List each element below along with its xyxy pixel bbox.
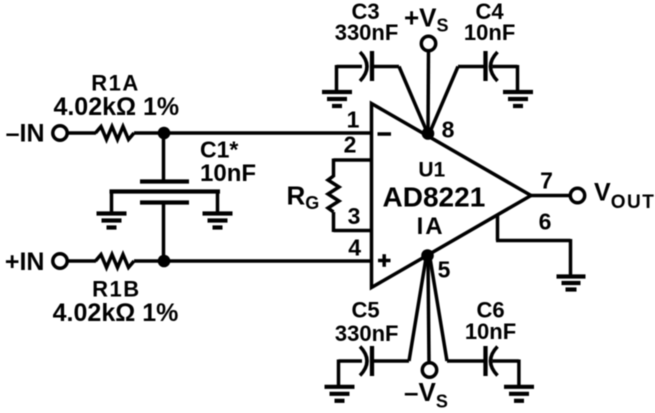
svg-text:3: 3: [348, 203, 361, 229]
plus sign at pin 4 input: [378, 254, 391, 267]
wire U1 pin 6 from triangle edge down: [496, 214, 500, 241]
capacitor C3: [337, 51, 400, 81]
svg-text:C5: C5: [351, 298, 379, 323]
C1 middle grounded plate: [110, 189, 221, 193]
wire C4 to U1 pin 8: [430, 67, 458, 133]
svg-text:+IN: +IN: [5, 248, 45, 276]
wire U1 pin 3 stub: [334, 229, 372, 233]
svg-text:4: 4: [348, 235, 361, 261]
wire C1 middle plate right to ground: [216, 192, 220, 213]
wire -VS to U1 pin 5: [428, 257, 429, 363]
wire C1 bottom plate down to node B: [162, 204, 166, 261]
wire pin 2 stub down to RG: [332, 159, 336, 178]
capacitor C6: [447, 346, 519, 376]
svg-text:–IN: –IN: [6, 120, 45, 148]
junction dot node A: [158, 127, 171, 140]
svg-text:U1: U1: [418, 159, 445, 182]
wire C3 to U1 pin 8: [399, 67, 427, 133]
svg-text:1: 1: [347, 107, 360, 133]
svg-text:2: 2: [344, 132, 357, 158]
wire node A to U1 pin 1: [164, 131, 372, 135]
wire pin 6 down to ground: [569, 239, 573, 275]
resistor R1B: [96, 255, 135, 268]
junction dot U1 pin 5: [421, 249, 434, 262]
wire node B to U1 pin 4: [164, 259, 372, 263]
terminal circle +IN: [53, 254, 67, 268]
ground (C5): [325, 387, 355, 401]
ground (pin 6 REF): [557, 277, 586, 290]
svg-text:10nF: 10nF: [465, 319, 516, 344]
ground (C4): [503, 92, 533, 106]
wire R1B to node B: [134, 259, 164, 263]
wire pin 6 horizontal: [496, 239, 571, 243]
wire C5 left leg down to ground: [337, 360, 341, 386]
capacitor C4: [458, 51, 518, 81]
svg-text:R1B: R1B: [92, 277, 141, 302]
terminal circle VOUT: [570, 188, 584, 202]
svg-text:4.02kΩ 1%: 4.02kΩ 1%: [53, 299, 179, 327]
wire +VS to U1 pin 8: [426, 51, 430, 134]
svg-text:330nF: 330nF: [335, 20, 399, 45]
terminal circle +VS: [421, 36, 435, 50]
wire R1A to node A: [134, 131, 164, 135]
wire +IN terminal to R1B: [67, 259, 96, 263]
wire C6 right leg down to ground: [517, 360, 521, 386]
terminal circle -IN: [53, 126, 67, 140]
resistor R1A: [96, 127, 135, 140]
wire C3 left leg down to ground: [335, 65, 339, 90]
capacitor C5: [339, 346, 410, 376]
ground (C3): [322, 92, 352, 106]
svg-text:4.02kΩ 1%: 4.02kΩ 1%: [53, 93, 179, 121]
svg-text:10nF: 10nF: [464, 20, 515, 45]
svg-text:8: 8: [442, 117, 455, 143]
C1 bottom plate: [140, 200, 189, 204]
wire C6 to U1 pin 5: [430, 258, 447, 361]
wire C1 middle plate left to ground: [110, 192, 114, 213]
wire node A down to C1 top plate: [162, 133, 166, 180]
junction dot node B: [158, 255, 171, 268]
wire U1 pin 2 stub: [334, 158, 372, 162]
capacitor C1 (dual differential/common-mode): [110, 133, 221, 261]
wire C5 to U1 pin 5: [409, 258, 426, 361]
svg-text:330nF: 330nF: [335, 321, 399, 346]
svg-text:6: 6: [539, 209, 552, 235]
ground (C1 left): [97, 214, 127, 228]
terminal circle -VS: [422, 363, 436, 377]
op-amp U1 triangle: [372, 104, 532, 288]
wire C4 right leg down to ground: [516, 65, 520, 90]
resistor RG: [328, 176, 339, 212]
wire RG down to pin 3 stub: [332, 212, 336, 232]
C1 top plate: [140, 179, 189, 183]
svg-text:AD8221: AD8221: [383, 182, 486, 213]
wire -IN terminal to R1A: [67, 131, 96, 135]
svg-text:R1A: R1A: [91, 71, 140, 96]
wire U1 pin 7 output: [531, 194, 571, 198]
ground (C1 right): [203, 214, 233, 228]
svg-text:10nF: 10nF: [200, 160, 256, 187]
minus sign at pin 1 input: [378, 132, 392, 136]
ground (C6): [504, 387, 534, 401]
junction dot U1 pin 8: [422, 127, 435, 140]
svg-text:IA: IA: [417, 213, 445, 240]
svg-text:7: 7: [540, 168, 553, 194]
svg-text:C1*: C1*: [200, 137, 238, 163]
svg-text:5: 5: [438, 257, 451, 283]
